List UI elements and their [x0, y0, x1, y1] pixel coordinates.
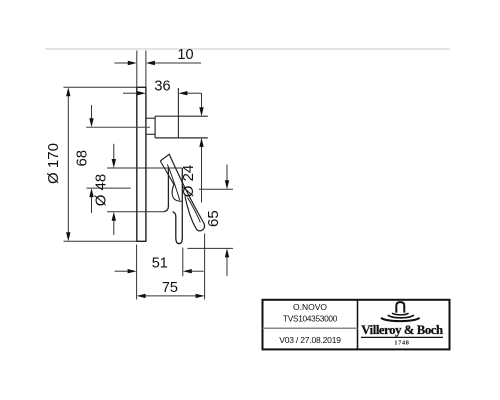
dim 51 arrows — [115, 270, 128, 272]
svg-text:O.NOVO: O.NOVO — [293, 302, 327, 312]
box right edge / extension for dim 36 — [177, 88, 179, 138]
dim 68 bottom extension line — [87, 187, 131, 189]
lever blade inner contour upper — [167, 164, 180, 200]
svg-text:Villeroy & Boch: Villeroy & Boch — [361, 323, 443, 337]
svg-text:10: 10 — [177, 47, 193, 63]
dim 51/75 extension lines below — [137, 234, 205, 300]
svg-text:68: 68 — [74, 150, 91, 167]
svg-text:1748: 1748 — [394, 340, 409, 347]
dim 65 arrows — [226, 165, 228, 181]
lever blade cap and rear edge with rounded tip — [160, 154, 204, 231]
dim Ø170 extension lines — [64, 87, 137, 241]
svg-text:65: 65 — [205, 210, 222, 227]
svg-text:V03 / 27.08.2019: V03 / 27.08.2019 — [279, 335, 341, 345]
dim 10 arrows and lines — [114, 62, 201, 64]
lever blade front edge with S-curve — [160, 161, 182, 201]
cartridge box — [155, 116, 208, 138]
cartridge neck — [146, 118, 155, 134]
title block vertical divider — [357, 300, 359, 350]
dim 75 dimension line with arrows — [145, 295, 195, 297]
dim 10 extension lines above plate — [137, 51, 146, 88]
logo wave arcs — [392, 313, 409, 315]
svg-text:75: 75 — [162, 280, 178, 296]
title block outer border — [263, 300, 450, 350]
dim Ø48 extension lines — [107, 168, 182, 212]
svg-text:TVS104353000: TVS104353000 — [283, 314, 338, 324]
svg-text:Ø 170: Ø 170 — [45, 143, 62, 184]
dim Ø170 dimension line with arrows — [67, 96, 69, 233]
svg-text:Ø 24: Ø 24 — [180, 165, 197, 198]
logo underline — [361, 336, 443, 338]
logo arch icon — [396, 302, 404, 313]
title block row divider — [263, 327, 358, 329]
handle body cylinder — [164, 168, 182, 238]
svg-text:51: 51 — [152, 256, 168, 272]
lever blade inner contour lower — [188, 198, 201, 223]
dim 36 arrows — [123, 92, 202, 94]
centerline cartridge axis — [86, 126, 150, 128]
dim 65 extension lines — [187, 189, 233, 248]
handle tail hook — [173, 212, 183, 244]
dim Ø48 arrows — [113, 144, 115, 159]
svg-text:36: 36 — [154, 79, 170, 95]
dim 68 arrows — [91, 105, 93, 119]
dim Ø24 bent leader and arrows — [201, 93, 203, 107]
svg-text:Ø 48: Ø 48 — [93, 174, 110, 207]
faint frame line — [45, 48, 450, 50]
wall plate (side view) — [137, 87, 146, 241]
